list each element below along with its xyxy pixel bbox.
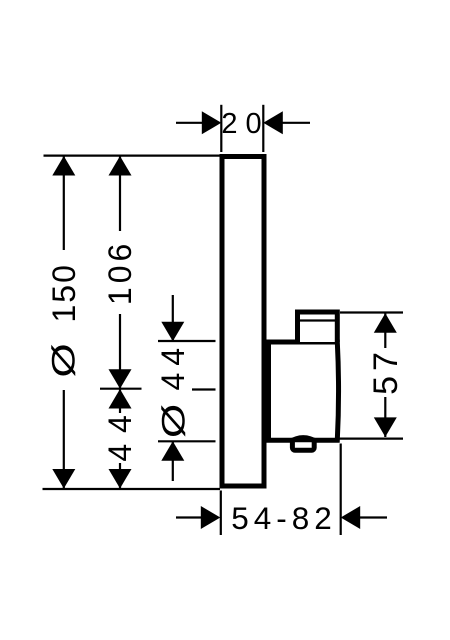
- center dash of valve axis: [192, 388, 216, 390]
- label D150: [46, 263, 82, 378]
- knob bottom tab: [292, 440, 314, 451]
- svg-text:57: 57: [367, 347, 405, 395]
- plate (escutcheon, side view): [222, 157, 264, 487]
- dimension line D150 vertical: [52, 156, 75, 489]
- svg-text:2 0: 2 0: [221, 108, 261, 140]
- dimension line 44 vertical: [109, 389, 132, 489]
- dimension line D44 vertical: [158, 295, 216, 481]
- svg-text:106: 106: [102, 240, 138, 305]
- svg-text:Ø: Ø: [156, 404, 192, 438]
- svg-text:54-82: 54-82: [231, 500, 337, 536]
- dimension line 106 vertical: [100, 156, 142, 389]
- knob bottom bump arc: [289, 436, 319, 441]
- knob cap inner line: [300, 319, 335, 321]
- svg-text:150: 150: [46, 263, 82, 322]
- dimension 20 horizontal top: [176, 105, 310, 152]
- label D44: [155, 341, 192, 438]
- bottom extension line at plate bottom: [43, 488, 221, 490]
- svg-text:Ø: Ø: [46, 343, 82, 377]
- knob cap: [298, 312, 338, 342]
- svg-text:44: 44: [155, 341, 191, 391]
- svg-text:4 4: 4 4: [102, 414, 138, 461]
- dimension 57 right side: [336, 313, 403, 439]
- top extension line at plate top: [44, 155, 223, 157]
- knob body: [269, 342, 339, 440]
- dimension 54-82 bottom: [176, 444, 387, 536]
